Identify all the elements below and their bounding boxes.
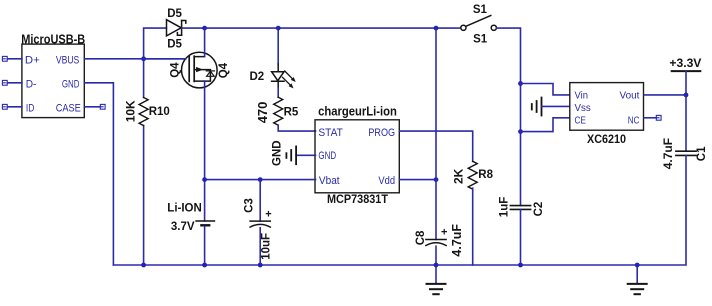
battery BT1 Li-ION	[196, 221, 214, 225]
svg-text:1uF: 1uF	[498, 197, 510, 217]
svg-text:VBUS: VBUS	[56, 54, 79, 66]
svg-text:STAT: STAT	[318, 127, 343, 139]
resistor R10	[139, 98, 148, 126]
svg-text:+: +	[265, 209, 271, 221]
wire R5 to STAT pin	[278, 125, 315, 131]
wire ground stub under C8	[435, 265, 437, 283]
svg-text:Q4: Q4	[170, 62, 182, 78]
svg-text:3.7V: 3.7V	[171, 221, 195, 233]
svg-text:S1: S1	[473, 4, 488, 16]
switch S1	[461, 16, 497, 31]
junction dot Vin tap	[518, 81, 523, 86]
junction dot VBUS / R10 / D5 node	[141, 56, 146, 61]
svg-text:XC6210: XC6210	[587, 132, 626, 146]
svg-text:D5: D5	[167, 38, 182, 50]
svg-text:Vin: Vin	[575, 89, 589, 101]
terminal square ID	[2, 104, 7, 109]
svg-text:4.7uF: 4.7uF	[450, 224, 464, 257]
wire R8 to ground rail	[472, 188, 474, 265]
wire Q4 gate from VBUS node	[144, 58, 186, 60]
junction dot C3 / Vbat rail	[258, 177, 263, 182]
junction dot C8 / ground rail	[434, 263, 439, 268]
wire Q4 drain down to battery	[204, 81, 206, 221]
wire D- stub	[7, 82, 22, 84]
junction dot R10 / ground rail	[141, 263, 146, 268]
svg-text:ID: ID	[26, 102, 35, 114]
svg-text:PROG: PROG	[368, 127, 395, 139]
svg-text:GND: GND	[318, 150, 336, 162]
wire GND pin stub	[296, 154, 315, 156]
terminal square D-	[2, 80, 7, 85]
power +3.3V symbol	[672, 70, 701, 72]
wire switch to regulator column	[497, 28, 521, 206]
svg-text:NC: NC	[628, 114, 640, 126]
wire ground stub right	[636, 265, 638, 283]
junction dot earth / ground rail	[635, 263, 640, 268]
svg-text:S1: S1	[473, 33, 488, 45]
wire Q4 source from top rail	[204, 28, 206, 56]
wire Vout to +3.3V column	[644, 94, 686, 96]
wire C3 top	[259, 180, 261, 222]
svg-text:MCP73831T: MCP73831T	[327, 192, 389, 206]
wire C2 bottom to ground rail	[520, 209, 522, 265]
svg-text:chargeurLi-ion: chargeurLi-ion	[318, 105, 397, 119]
wire Vbat rail	[205, 179, 316, 181]
wire LED column from top rail	[277, 28, 279, 64]
junction dot Vdd column / top rail	[434, 26, 439, 31]
svg-text:D5: D5	[167, 8, 182, 20]
svg-text:+: +	[441, 227, 447, 239]
junction dot C2 / ground rail	[518, 263, 523, 268]
svg-text:2K: 2K	[452, 168, 466, 184]
wire ID stub	[7, 106, 22, 108]
IC U2 XC6210 body	[570, 83, 644, 131]
wire D+ stub	[7, 58, 22, 60]
wire D5 anode riser	[144, 28, 167, 59]
wire CASE stub	[84, 106, 100, 108]
svg-text:D2: D2	[250, 71, 265, 83]
svg-text:D-: D-	[26, 78, 37, 90]
svg-text:C2: C2	[533, 202, 545, 217]
terminal square CASE	[100, 104, 105, 109]
svg-text:C1: C1	[696, 146, 708, 161]
svg-text:C3: C3	[244, 198, 256, 213]
junction dot CE tap	[518, 129, 523, 134]
wire battery minus to ground rail	[204, 227, 206, 266]
wire R10 column from VBUS node to ground rail	[143, 59, 145, 265]
wire +3.3V to Vout node and down to C1	[685, 71, 687, 151]
wire NC stub	[644, 117, 656, 119]
svg-text:GND: GND	[62, 78, 80, 90]
svg-text:10uF: 10uF	[261, 233, 273, 260]
svg-text:CE: CE	[575, 114, 586, 126]
svg-text:CASE: CASE	[56, 102, 81, 114]
svg-text:R10: R10	[149, 106, 170, 118]
junction dot LED column / top rail	[276, 26, 281, 31]
svg-text:10K: 10K	[124, 100, 138, 122]
junction dot battery / Vbat rail	[202, 177, 207, 182]
diode D5	[167, 20, 186, 36]
svg-text:Vbat: Vbat	[319, 175, 340, 187]
wire top rail D5 cathode to switch	[182, 27, 460, 29]
transistor Q4 (P-MOSFET)	[182, 52, 218, 88]
wire C8 column from top rail	[435, 28, 437, 239]
svg-text:MicroUSB-B: MicroUSB-B	[21, 32, 85, 46]
resistor R8	[468, 161, 477, 189]
wire C8 bottom	[435, 246, 437, 265]
svg-text:4.7uF: 4.7uF	[661, 138, 675, 169]
svg-text:Vout: Vout	[620, 89, 640, 101]
wire Vdd stub	[400, 179, 436, 181]
wire PROG to R8	[400, 131, 473, 161]
svg-text:470: 470	[255, 102, 270, 124]
LED D2	[272, 64, 295, 88]
wire Vin tap to regulator	[521, 84, 570, 95]
wire C1 bottom to ground rail	[113, 155, 686, 265]
wire Vss stub	[542, 105, 570, 107]
svg-text:Q4: Q4	[218, 62, 230, 78]
junction dot Vout node	[684, 93, 689, 98]
junction dot Q4 drain / top rail	[202, 26, 207, 31]
capacitor C8	[426, 240, 446, 246]
terminal square NC	[656, 115, 661, 120]
capacitor C3	[250, 221, 270, 227]
wire LED to R5	[277, 88, 279, 97]
junction dot battery / ground rail	[202, 263, 207, 268]
capacitor C2	[510, 206, 530, 210]
junction dot C3 / ground rail	[258, 263, 263, 268]
svg-text:Vss: Vss	[575, 102, 591, 114]
svg-text:+3.3V: +3.3V	[669, 56, 701, 70]
ground (earth) right	[628, 284, 647, 294]
svg-text:R5: R5	[284, 107, 299, 119]
svg-text:R8: R8	[478, 169, 493, 181]
ground (signal) at Vss pin	[532, 98, 542, 116]
junction dot Vdd / C8 column	[434, 177, 439, 182]
svg-text:Vdd: Vdd	[378, 175, 395, 187]
svg-text:D+: D+	[25, 54, 40, 66]
svg-text:C8: C8	[415, 230, 427, 245]
terminal square D+	[2, 56, 7, 61]
wire GND of connector right then down to ground rail	[84, 83, 113, 265]
svg-text:Li-ION: Li-ION	[167, 203, 202, 215]
capacitor C1	[676, 151, 696, 155]
connector J1 MicroUSB-B body	[22, 44, 84, 118]
resistor R5	[274, 97, 283, 125]
IC U1 MCP73831T body	[315, 120, 399, 193]
wire VBUS from connector to gate node	[84, 58, 185, 60]
ground (signal) at MCP GND pin	[286, 146, 296, 164]
wire C3 bottom	[259, 228, 261, 265]
svg-text:GND: GND	[271, 140, 283, 166]
wire CE tap to regulator	[521, 118, 570, 132]
ground (earth) under C8	[427, 284, 446, 294]
